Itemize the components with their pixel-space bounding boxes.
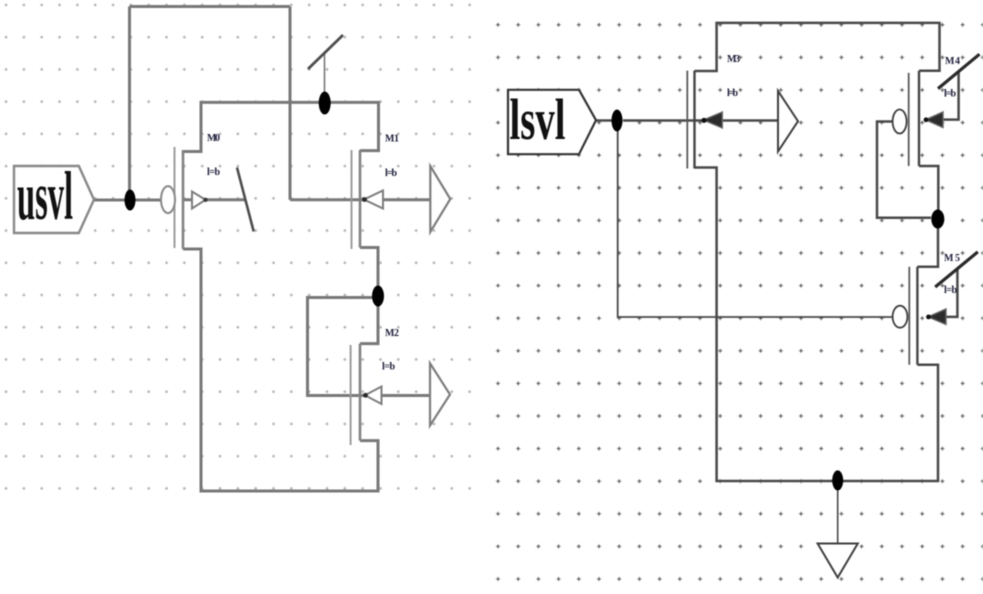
M1 bulk arrow (192, 192, 206, 209)
wire M6 drain from node C (917, 228, 938, 267)
wire left vertical from top rail to usvl node (128, 7, 131, 201)
wire lsvl node to M4 gate and bulk line to port (623, 119, 778, 122)
wire M2 gate and bulk line to output port (290, 198, 430, 201)
M5 no-connect slash (938, 54, 980, 88)
M1 no-connect slash (237, 168, 254, 232)
output port (right circuit, M4 bulk) (778, 91, 798, 152)
transistor M6 (bottom right PMOS) (909, 267, 917, 365)
M5 bulk arrow (926, 112, 944, 128)
node lsvl junction dot (612, 110, 623, 132)
node D junction dot on bottom rail (832, 470, 843, 490)
transistor M5 (top right PMOS) (909, 71, 919, 166)
wire M6 bulk stub up to no-connect (946, 269, 957, 317)
wire M3 drain from node B (360, 296, 378, 344)
svg-text:M1: M1 (385, 134, 399, 145)
pin lsvl flag (508, 90, 596, 154)
svg-text:l=b: l=b (944, 89, 956, 100)
wire M5 source to node C (919, 166, 938, 210)
svg-text:M2: M2 (385, 328, 399, 339)
M2 bulk arrow tip dot (362, 197, 367, 202)
wire M5 gate loop to node C (877, 122, 931, 218)
M4 bulk arrow tip dot (701, 118, 706, 123)
wire M2 source to node B (360, 248, 378, 297)
ground symbol (818, 544, 858, 578)
wire lsvl node down and across to M6 gate bubble (618, 131, 893, 317)
wire M4 source down, bottom rail, up to M6 source (695, 168, 939, 482)
M1 bulk arrow tip dot (203, 198, 207, 202)
wire M4 drain up, top rail, down to M5 drain (695, 23, 940, 71)
transistor M3 (NMOS, bottom of left circuit) (351, 344, 360, 445)
M4 bulk arrow (704, 112, 723, 128)
svg-text:l=b: l=b (207, 167, 220, 178)
svg-text:M0: M0 (207, 133, 220, 144)
wire usvl pin to gate bubble (94, 199, 161, 202)
wire top rail (130, 5, 291, 8)
M5 bulk arrow tip dot (924, 117, 929, 122)
svg-text:l=b: l=b (727, 88, 738, 99)
M1 gate bubble (161, 186, 175, 213)
wire lsvl pin to node (596, 119, 612, 122)
transistor M2 (NMOS, top right of left circuit) (352, 150, 361, 249)
wire M3 gate loop from node B and bulk line to output port (308, 298, 431, 396)
svg-text:M5: M5 (944, 253, 960, 264)
M3 bulk arrow tip dot (363, 393, 368, 398)
M6 bulk arrow tip dot (926, 315, 931, 320)
svg-text:lsvl: lsvl (510, 87, 566, 152)
svg-text:l=b: l=b (385, 168, 397, 179)
pin usvl flag (14, 166, 94, 233)
wire M5 bulk stub up to no-connect (943, 72, 959, 120)
svg-text:M4: M4 (945, 56, 960, 67)
wire ground stub below node D (837, 489, 839, 543)
svg-text:l=b: l=b (944, 285, 957, 296)
output port (left circuit, M3 bulk) (430, 363, 450, 425)
node A junction dot on top node row (319, 92, 331, 115)
svg-text:l=b: l=b (382, 362, 395, 373)
M6 gate bubble (893, 306, 908, 328)
wire no-connect stub above node A (324, 52, 326, 92)
transistor M4 (right circuit input device) (687, 71, 694, 169)
M6 no-connect slash (935, 252, 978, 287)
M3 bulk arrow (365, 387, 382, 405)
node B junction dot (M2 source / M3 drain) (372, 286, 384, 307)
M5 gate bubble (893, 110, 907, 134)
node C junction dot (M5 source-gate / M6 drain) (931, 210, 944, 229)
M2 bulk arrow (364, 191, 383, 209)
transistor M1 (PMOS, left) (175, 147, 184, 249)
wire M1 bulk stub (183, 198, 246, 201)
wire M1 drain up, across node row, down to M2 drain (183, 102, 379, 151)
M6 bulk arrow (928, 309, 946, 325)
svg-text:usvl: usvl (17, 158, 73, 233)
wire right vertical from top rail to M2 gate (289, 7, 292, 200)
node usvl junction dot (125, 190, 136, 211)
wire M1 source down, bottom rail, up to M3 source (183, 249, 378, 491)
no-connect slash above node A (308, 35, 343, 69)
output port (left circuit, M2 bulk) (430, 166, 450, 232)
svg-text:M3: M3 (727, 54, 740, 65)
